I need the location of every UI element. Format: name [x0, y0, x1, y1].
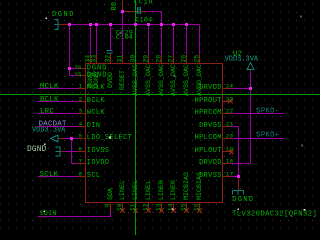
svg-text:BCLK: BCLK	[87, 97, 106, 105]
svg-text:SDA: SDA	[107, 188, 114, 200]
svg-text:AVDD_DAC: AVDD_DAC	[196, 64, 203, 96]
svg-text:BCLK: BCLK	[40, 96, 59, 104]
svg-text:6: 6	[79, 145, 83, 152]
svg-text:AVSS_DAC: AVSS_DAC	[158, 64, 165, 96]
svg-text:RESET: RESET	[119, 70, 126, 90]
svg-text:HPROUT: HPROUT	[195, 97, 222, 105]
svg-text:1: 1	[79, 82, 83, 89]
svg-text:26: 26	[181, 55, 188, 63]
svg-text:AVSS_DAC: AVSS_DAC	[183, 64, 190, 96]
svg-text:SCL: SCL	[87, 172, 101, 180]
svg-text:TLV320DAC32[QFN32]: TLV320DAC32[QFN32]	[232, 210, 317, 218]
svg-text:IOVDD: IOVDD	[87, 159, 110, 167]
svg-text:C104: C104	[135, 17, 152, 24]
svg-text:HPLCOM: HPLCOM	[195, 134, 222, 142]
svg-text:23: 23	[226, 95, 234, 102]
svg-text:10: 10	[117, 203, 124, 211]
svg-text:36: 36	[74, 64, 82, 71]
svg-text:9: 9	[105, 203, 112, 207]
svg-text:15: 15	[181, 203, 188, 211]
svg-text:HPLOUT: HPLOUT	[195, 147, 222, 155]
svg-text:4: 4	[79, 120, 83, 127]
svg-text:LINEL: LINEL	[145, 180, 152, 200]
svg-text:19: 19	[226, 145, 234, 152]
svg-text:12: 12	[143, 203, 150, 211]
svg-text:CC18: CC18	[134, 0, 153, 6]
svg-text:R8: R8	[111, 2, 119, 11]
svg-text:C104: C104	[116, 34, 133, 41]
svg-text:DIN: DIN	[87, 122, 101, 130]
svg-text:AVSS_DAC: AVSS_DAC	[145, 64, 152, 96]
svg-text:LINER: LINER	[170, 180, 177, 200]
svg-text:DRVSS: DRVSS	[199, 122, 222, 130]
svg-text:DRVDD: DRVDD	[199, 159, 222, 167]
svg-text:DGND: DGND	[27, 146, 47, 154]
svg-text:14: 14	[168, 203, 175, 211]
svg-text:32: 32	[105, 55, 112, 63]
svg-text:27: 27	[168, 55, 175, 63]
svg-text:DVDD: DVDD	[107, 72, 114, 88]
svg-text:MICBIAS: MICBIAS	[183, 172, 190, 200]
svg-text:29: 29	[143, 55, 150, 63]
svg-text:8: 8	[79, 170, 83, 177]
svg-text:16: 16	[194, 203, 201, 211]
svg-text:LINEL: LINEL	[119, 180, 126, 200]
svg-text:AVSS_DAC: AVSS_DAC	[170, 64, 177, 96]
svg-text:DGND: DGND	[232, 196, 254, 204]
svg-text:SCLK: SCLK	[40, 171, 59, 179]
svg-text:MICBIAS: MICBIAS	[196, 172, 203, 200]
svg-text:LRC: LRC	[40, 108, 54, 116]
svg-text:MCLK: MCLK	[40, 83, 59, 91]
svg-text:SPKO-: SPKO-	[256, 107, 279, 115]
svg-text:25: 25	[194, 55, 201, 63]
svg-text:7: 7	[79, 157, 83, 164]
svg-text:35: 35	[74, 71, 82, 78]
svg-text:33: 33	[91, 55, 98, 63]
svg-text:2: 2	[79, 95, 83, 102]
svg-text:31: 31	[117, 55, 124, 63]
svg-text:DGND: DGND	[52, 11, 75, 19]
svg-text:IOVSS: IOVSS	[87, 147, 110, 155]
svg-text:LINER: LINER	[158, 180, 165, 200]
svg-text:13: 13	[156, 203, 163, 211]
svg-text:VDD3.3VA: VDD3.3VA	[225, 55, 259, 63]
svg-text:HPRCOM: HPRCOM	[195, 109, 222, 117]
svg-text:WCLK: WCLK	[87, 109, 106, 117]
svg-text:SDIN: SDIN	[40, 210, 57, 217]
svg-text:3: 3	[79, 107, 83, 114]
svg-text:28: 28	[156, 55, 163, 63]
svg-text:5: 5	[79, 132, 83, 139]
svg-text:DGND: DGND	[93, 72, 100, 88]
svg-text:VDD3.3VA: VDD3.3VA	[32, 126, 66, 134]
